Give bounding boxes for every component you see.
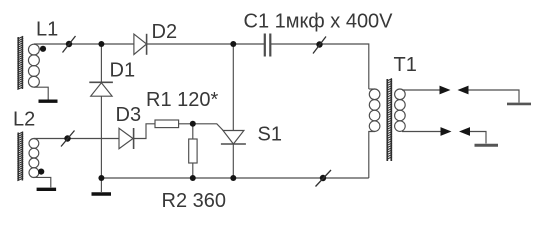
node: S1 cathode to bus junction [230,175,236,181]
thyristor S1 [221,131,246,145]
wire top rail from L1 to D2 anode [34,43,134,45]
wire bottom bus [101,177,368,179]
wire D2 cathode to C1 left plate [147,43,265,45]
wire T1 primary top tap [369,88,375,90]
transformer T1 core [387,79,392,162]
transformer T1 secondary winding [395,89,406,100]
svg-text:L1: L1 [36,19,58,41]
node: bus ground junction [98,175,104,181]
svg-text:D2: D2 [152,21,178,43]
diode D3 [119,128,134,149]
svg-text:T1: T1 [394,54,417,76]
slash of tap mark on L2 rail [61,131,75,147]
connector arrow: top plug [440,86,451,95]
wire T1 primary bottom tap and down to bottom bus corner [369,132,375,179]
wire L2 bottom lead to ground [34,177,51,187]
wire C1 right plate to top-right corner and down to T1 primary top [271,44,369,89]
inductor L2 core [17,132,23,181]
wire R2 bottom to bus [192,163,194,178]
node: R2 to bus junction [190,175,196,181]
node: L1 winding start dot [40,46,46,52]
wire node A down to R2 top [192,124,194,139]
wire bottom jack lead to ground [470,132,486,144]
node: tap mark on bottom bus [320,175,326,181]
connector arrow: top jack [458,86,469,95]
ground bottom jack [475,144,499,147]
wire T1 secondary top lead to plug [402,89,440,91]
connector arrow: bottom plug [441,127,452,136]
node: tap mark on L1 rail [66,41,72,47]
wire S1 anode from top node down [232,44,234,131]
node: tap mark on top rail right [316,41,322,47]
svg-text:D3: D3 [116,104,142,126]
slash of tap mark on L1 rail [63,36,76,53]
slash of tap mark on bottom bus [316,170,332,187]
wire D1 anode down to bottom bus [100,96,102,178]
wire T1 secondary bottom lead to plug [402,131,441,133]
node: top rail junction to D1 [98,41,104,47]
inductor L2 winding [29,139,39,149]
svg-text:S1: S1 [258,124,282,146]
resistor R1 body [155,120,179,128]
node: L2 winding start dot [38,169,44,175]
node: top rail junction to S1 anode [230,41,236,47]
ground L1 [39,99,58,102]
diode D2 [134,34,147,55]
slash of tap mark on top rail right [313,37,326,54]
wire R1 right lead to node A [179,123,193,125]
connector arrow: bottom jack [459,127,470,136]
ground bottom bus [92,192,112,195]
inductor L1 winding [28,44,39,55]
svg-text:L2: L2 [13,109,35,131]
wire top jack lead to ground [469,90,520,103]
ground top jack [507,103,531,106]
node: tap mark on L2 rail [64,135,70,141]
svg-text:R1 120*: R1 120* [146,89,218,111]
resistor R2 body [189,139,197,163]
wire L2 rail to D3 anode [34,138,119,140]
wire bus ground stub [100,178,102,192]
wire S1 cathode down to bus [232,144,234,178]
transformer T1 primary winding [369,89,380,100]
diode D1 [89,82,113,96]
inductor L1 core [17,36,23,89]
svg-text:D1: D1 [110,60,136,82]
wire D3 cathode to R1 left lead [134,124,155,139]
capacitor C1 plates [265,34,271,57]
svg-text:C1 1мкф x 400V: C1 1мкф x 400V [244,11,394,33]
ground L2 [37,188,57,191]
wire node A to S1 gate [193,124,223,131]
node A: R1/R2/gate junction [190,121,196,127]
svg-text:R2 360: R2 360 [162,190,227,212]
wire D1 branch: top node down to D1 cathode bar [100,44,102,82]
wire L1 bottom lead to ground [34,87,48,100]
